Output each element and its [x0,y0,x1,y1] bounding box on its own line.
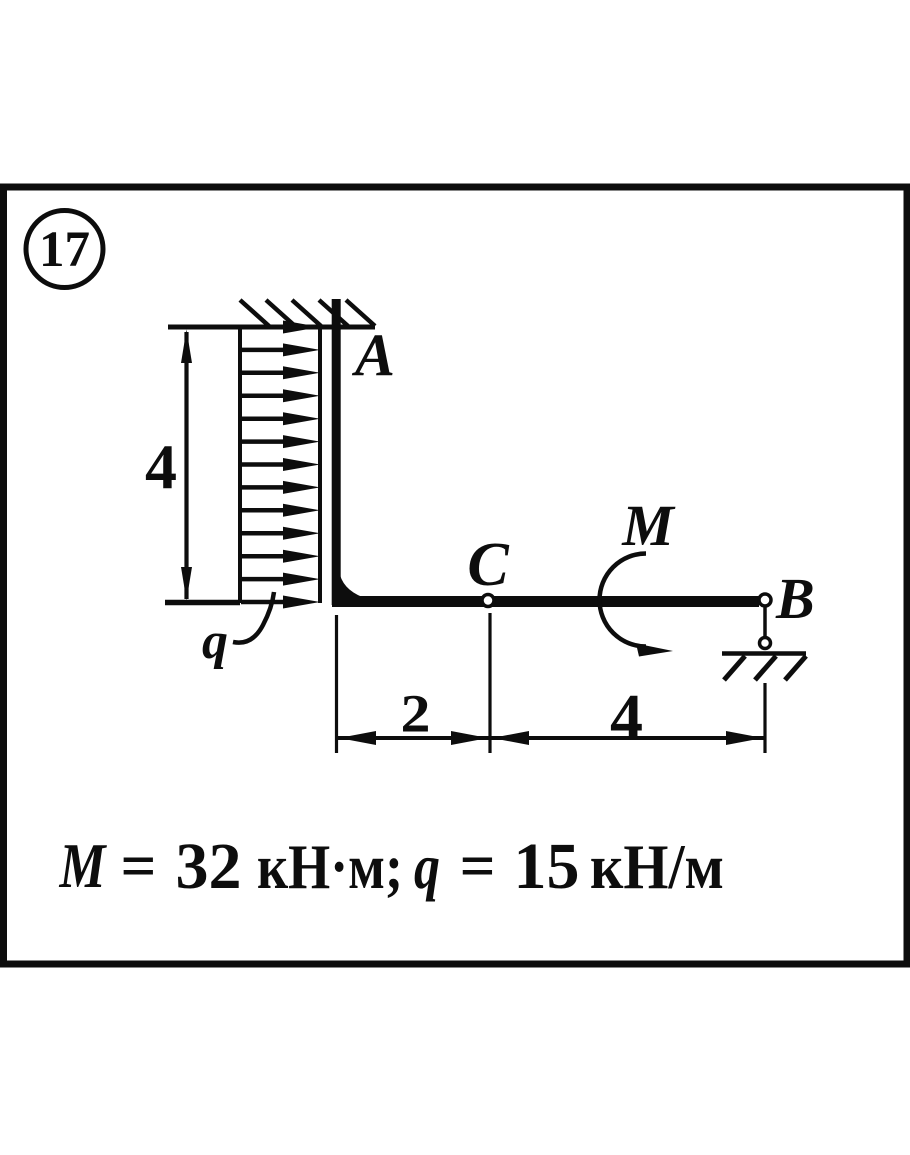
svg-text:4: 4 [610,681,643,754]
wall support line [168,325,375,330]
hinge C [482,595,494,607]
wall hatch strokes [240,300,375,326]
moment M arc [600,554,674,657]
svg-text:32: 32 [176,830,242,903]
svg-text:17: 17 [39,222,90,278]
svg-text:=: = [121,831,157,901]
support hatch strokes at B [724,656,806,680]
svg-text:q: q [414,832,440,902]
extension line below B [763,683,766,753]
dimension line 2+4 [338,736,764,740]
column member (vertical bar A) [332,299,341,605]
svg-text:C: C [467,531,509,599]
svg-text:q: q [202,613,228,670]
distributed load left edge [238,327,242,603]
frame border [4,187,908,964]
formula M = 32 kN*m; q = 15 kN/m [59,830,724,903]
svg-text:M: M [621,493,676,558]
svg-text:=: = [460,831,496,901]
svg-text:B: B [775,566,815,631]
corner fillet at beam-column joint [340,575,368,601]
svg-text:15: 15 [514,830,580,903]
extension line below C [488,613,491,753]
support ground line at B [722,651,806,656]
beam member (horizontal) [332,596,759,607]
hinge B [759,594,771,606]
dimension arrowheads [339,731,763,745]
base line under load at dimension foot [165,600,240,606]
svg-text:кН·м;: кН·м; [257,832,403,902]
support link at B [763,607,767,637]
problem number circle 17 [26,211,103,288]
dimension line for column height 4 [181,330,192,601]
support pin circle at B [760,638,771,649]
svg-text:кН/м: кН/м [590,832,724,902]
svg-text:A: A [351,322,395,388]
leader line from q to load [233,592,274,643]
svg-text:M: M [59,831,107,901]
svg-text:2: 2 [401,684,431,744]
extension line below corner [335,615,338,753]
distributed load right edge [318,327,322,603]
svg-text:4: 4 [145,431,177,502]
distributed load q arrows [241,321,320,609]
